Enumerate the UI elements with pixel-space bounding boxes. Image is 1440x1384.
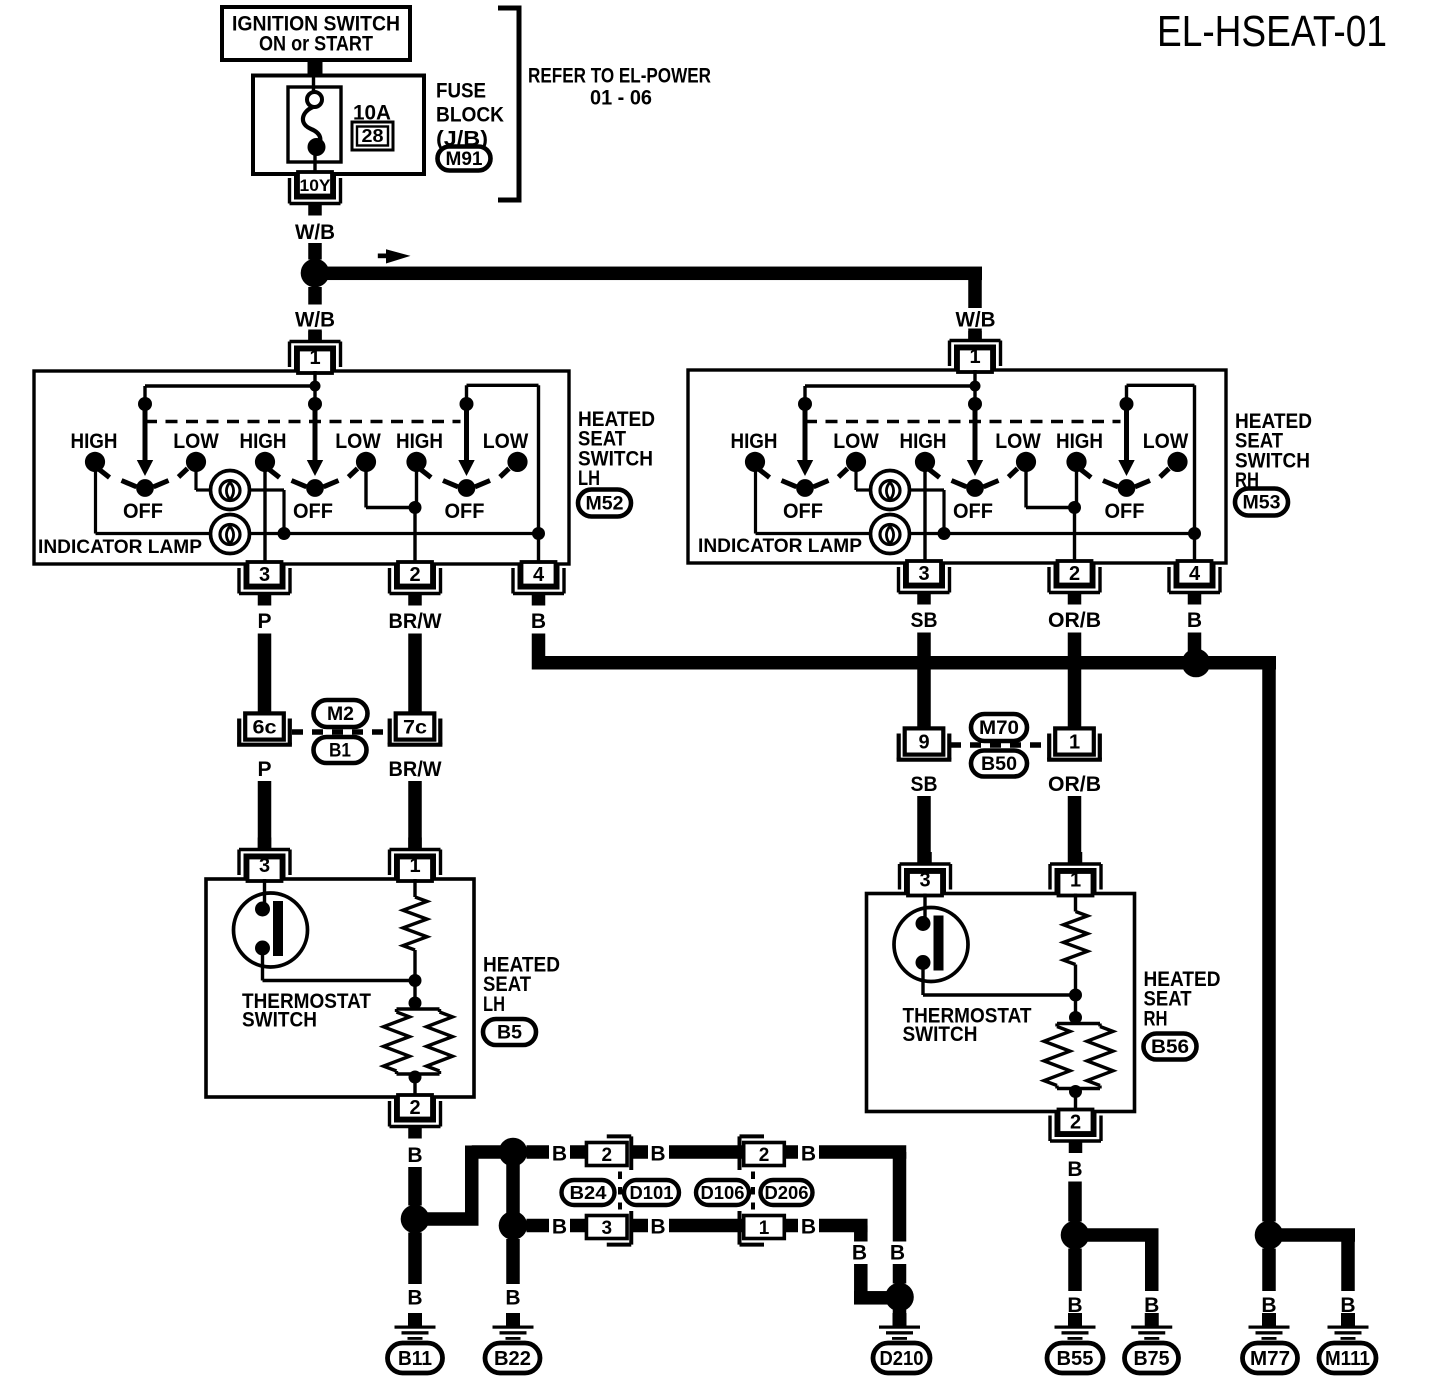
wire from pin 1 bbox=[313, 371, 316, 404]
svg-text:BLOCK: BLOCK bbox=[436, 103, 504, 127]
pin 2 connector bbox=[1059, 1110, 1093, 1134]
wire SB bbox=[917, 633, 931, 727]
node parallel heater top bbox=[1069, 1011, 1082, 1024]
svg-text:M52: M52 bbox=[586, 494, 624, 515]
svg-text:INDICATOR LAMP: INDICATOR LAMP bbox=[698, 535, 862, 557]
wire B row1 bbox=[669, 1145, 744, 1159]
connector ref B56 bbox=[1144, 1034, 1197, 1060]
connector D106/D206 pin 2 bbox=[740, 1134, 765, 1138]
svg-text:LH: LH bbox=[483, 992, 505, 1016]
svg-text:01 - 06: 01 - 06 bbox=[590, 87, 652, 110]
svg-text:LOW: LOW bbox=[173, 430, 219, 453]
wire B row1 to D210 bbox=[819, 1145, 906, 1159]
connector ref M91 bbox=[438, 147, 491, 171]
svg-text:D106: D106 bbox=[701, 1182, 745, 1203]
svg-text:2: 2 bbox=[409, 1097, 420, 1119]
svg-text:9: 9 bbox=[918, 732, 929, 754]
svg-text:P: P bbox=[257, 758, 271, 781]
svg-text:B: B bbox=[407, 1287, 422, 1310]
svg-text:10Y: 10Y bbox=[300, 176, 332, 195]
svg-text:4: 4 bbox=[1189, 563, 1201, 585]
switch arrow (pole) bbox=[143, 404, 148, 462]
LOW contact bbox=[1167, 452, 1187, 472]
svg-text:INDICATOR LAMP: INDICATOR LAMP bbox=[38, 536, 202, 558]
LOW contact bbox=[507, 452, 527, 472]
svg-text:2: 2 bbox=[409, 564, 420, 586]
wire B to ground B22 bbox=[506, 1239, 520, 1284]
switch arrow (pole) bbox=[1124, 404, 1129, 462]
wire B to ground B11 bbox=[408, 1233, 422, 1285]
LOW contact bbox=[846, 452, 866, 472]
wire from pin 1 bbox=[973, 370, 976, 404]
svg-text:2: 2 bbox=[759, 1145, 770, 1166]
switch OFF contact bbox=[1118, 479, 1136, 497]
connector M70/B50 pin 9 bbox=[897, 734, 901, 760]
HIGH contact bbox=[85, 452, 105, 472]
thermostat switch box (heated seat LH) bbox=[206, 879, 474, 1097]
ground D210 bbox=[893, 1313, 907, 1327]
svg-text:LOW: LOW bbox=[483, 430, 529, 453]
svg-text:B: B bbox=[505, 1287, 520, 1310]
wire BR/W lower bbox=[408, 781, 422, 849]
pin 1 connector bbox=[958, 349, 992, 373]
svg-text:OFF: OFF bbox=[1105, 499, 1145, 523]
fuse block J/B box bbox=[253, 76, 424, 175]
svg-text:HIGH: HIGH bbox=[900, 430, 947, 453]
node bbox=[409, 974, 422, 987]
wire ignition to fuse block bbox=[308, 60, 323, 76]
svg-text:3: 3 bbox=[601, 1218, 612, 1239]
svg-text:B: B bbox=[852, 1242, 867, 1265]
wire LOW1 to indicator lamp 1 bbox=[194, 468, 197, 490]
pin 3 connector bbox=[907, 561, 941, 585]
wire W/B bbox=[308, 243, 322, 260]
node B splice RH bbox=[1061, 1221, 1090, 1250]
ground B11 bbox=[408, 1313, 422, 1327]
node parallel heater bottom bbox=[409, 1071, 422, 1084]
wire B row1 stub to splice bbox=[893, 1264, 907, 1284]
node parallel heater top bbox=[409, 997, 422, 1010]
connector refs M70 B50 bbox=[950, 742, 1048, 748]
svg-text:B: B bbox=[1187, 609, 1202, 632]
svg-text:BR/W: BR/W bbox=[389, 758, 442, 781]
svg-text:D206: D206 bbox=[765, 1182, 809, 1203]
switch OFF contact bbox=[306, 479, 324, 497]
parallel heater elements bbox=[397, 1007, 440, 1010]
node B splice 2 bbox=[499, 1138, 528, 1167]
svg-text:BR/W: BR/W bbox=[389, 610, 442, 633]
svg-text:B: B bbox=[890, 1242, 905, 1265]
wire B row2 to D210 bbox=[819, 1219, 868, 1233]
wire B to ground bus bbox=[532, 634, 546, 670]
indicator lamp 1 bbox=[871, 471, 910, 510]
connector ref M52 bbox=[578, 490, 631, 517]
node lamp return bbox=[938, 527, 951, 540]
node LOW2/HIGH3 bbox=[409, 501, 422, 514]
pin 1 connector bbox=[298, 350, 332, 374]
heater element resistor (main) bbox=[413, 879, 416, 897]
LOW contact bbox=[1016, 452, 1036, 472]
pin 3 connector bbox=[248, 562, 282, 586]
svg-text:B: B bbox=[801, 1143, 816, 1166]
svg-text:1: 1 bbox=[409, 855, 420, 877]
wire B row1 to connector bbox=[527, 1145, 550, 1159]
node W/B splice bbox=[301, 259, 330, 288]
thermostat switch symbol bbox=[894, 908, 968, 982]
svg-text:OFF: OFF bbox=[293, 499, 333, 523]
wire P bbox=[258, 634, 272, 712]
switch OFF contact bbox=[136, 479, 154, 497]
wire switch 3 common to pin 4 (ground side) bbox=[465, 385, 468, 404]
svg-text:1: 1 bbox=[1069, 732, 1080, 754]
svg-text:OFF: OFF bbox=[445, 499, 485, 523]
switch arrow (pole) bbox=[803, 404, 808, 462]
svg-text:FUSE: FUSE bbox=[436, 79, 486, 103]
wire B branch to M111 bbox=[1269, 1228, 1355, 1242]
svg-text:M91: M91 bbox=[446, 149, 483, 170]
wire OR/B bbox=[1068, 633, 1082, 727]
svg-text:D210: D210 bbox=[880, 1348, 924, 1370]
svg-text:3: 3 bbox=[918, 563, 929, 585]
pin 1 connector bbox=[398, 858, 432, 882]
svg-text:M2: M2 bbox=[327, 704, 354, 725]
svg-text:B: B bbox=[801, 1216, 816, 1239]
svg-text:OFF: OFF bbox=[123, 499, 163, 523]
svg-text:SWITCH: SWITCH bbox=[903, 1023, 978, 1046]
pin 2 connector bbox=[1058, 561, 1092, 585]
HIGH contact bbox=[1066, 452, 1086, 472]
svg-text:B: B bbox=[531, 610, 546, 633]
wire lamp1 to lamp return bbox=[250, 488, 284, 491]
wire HIGH2 to pin 3 bbox=[923, 468, 926, 563]
connector M2/B1 pin 7c bbox=[388, 719, 392, 745]
wire W/B below splice bbox=[308, 287, 322, 305]
ground B75 bbox=[1145, 1313, 1159, 1327]
wire LOW2 to pin 2 node bbox=[1024, 468, 1027, 508]
wire B to ground M77 bbox=[1262, 1249, 1276, 1292]
wire B RH pin4 to bus bbox=[1188, 633, 1202, 653]
switch OFF contact bbox=[458, 479, 476, 497]
svg-text:D101: D101 bbox=[630, 1182, 674, 1203]
node B splice D210 bbox=[885, 1283, 914, 1312]
switch arrow (pole) bbox=[464, 404, 469, 462]
svg-text:1: 1 bbox=[309, 347, 320, 369]
HIGH contact bbox=[406, 452, 426, 472]
wire W/B bus to RH switch bbox=[315, 267, 982, 281]
heated seat switch box M52 bbox=[34, 371, 569, 564]
node bbox=[1069, 989, 1082, 1002]
node B splice LH bbox=[401, 1205, 430, 1234]
LOW contact bbox=[356, 452, 376, 472]
wire switch 3 common to pin 4 (ground side) bbox=[1125, 385, 1128, 404]
svg-text:1: 1 bbox=[759, 1218, 770, 1239]
svg-text:LOW: LOW bbox=[995, 430, 1041, 453]
wire B splice to door harness bbox=[415, 1212, 479, 1226]
ground B55 bbox=[1068, 1313, 1082, 1327]
thermostat switch symbol bbox=[234, 893, 308, 967]
svg-text:RH: RH bbox=[1144, 1006, 1168, 1030]
connector refs B24 D101 D106 D206 bbox=[618, 1172, 622, 1210]
svg-text:B11: B11 bbox=[398, 1348, 432, 1370]
svg-text:B24: B24 bbox=[570, 1182, 608, 1203]
wire lamp1 to lamp return bbox=[910, 488, 944, 491]
svg-text:4: 4 bbox=[533, 564, 545, 586]
svg-text:OR/B: OR/B bbox=[1048, 773, 1101, 796]
node on indicator lamp return bbox=[532, 527, 545, 540]
REFER TO EL-POWER bracket bbox=[517, 8, 522, 200]
ground B22 bbox=[506, 1313, 520, 1327]
pin 3 connector bbox=[248, 858, 282, 882]
wire LOW2 to pin 2 node bbox=[364, 468, 367, 508]
svg-text:3: 3 bbox=[919, 870, 930, 892]
indicator lamp 2 bbox=[211, 515, 250, 554]
connector M70/B50 pin 1 bbox=[1047, 734, 1051, 760]
wire BR/W bbox=[408, 634, 422, 712]
svg-text:6c: 6c bbox=[253, 718, 277, 739]
svg-text:HIGH: HIGH bbox=[240, 430, 287, 453]
wire lamp2 return to pin 4 bbox=[910, 532, 1195, 535]
wire B bbox=[1068, 1182, 1082, 1222]
node: pin1 bus bbox=[310, 381, 321, 392]
svg-text:1: 1 bbox=[969, 346, 980, 368]
svg-text:OFF: OFF bbox=[953, 499, 993, 523]
svg-text:B22: B22 bbox=[494, 1348, 531, 1370]
switch arrow (pole) bbox=[313, 404, 318, 462]
wire B to ground B55 bbox=[1068, 1249, 1082, 1292]
svg-text:REFER TO EL-POWER: REFER TO EL-POWER bbox=[528, 65, 711, 88]
svg-text:7c: 7c bbox=[403, 718, 427, 739]
flow arrow bbox=[378, 254, 391, 259]
heated seat switch box M53 bbox=[688, 370, 1226, 563]
svg-text:LOW: LOW bbox=[1143, 430, 1189, 453]
svg-text:W/B: W/B bbox=[295, 221, 335, 244]
svg-text:OR/B: OR/B bbox=[1048, 609, 1101, 632]
pin 4 connector bbox=[522, 562, 556, 586]
node ground bus splice M77 bbox=[1255, 1221, 1284, 1250]
ground M77 bbox=[1262, 1313, 1276, 1327]
svg-text:HIGH: HIGH bbox=[1056, 430, 1103, 453]
svg-text:M70: M70 bbox=[979, 718, 1019, 739]
svg-text:2: 2 bbox=[1069, 563, 1080, 585]
wire B row2 elbow to splice bbox=[854, 1264, 868, 1305]
switch common nodes bbox=[798, 397, 812, 411]
svg-text:B: B bbox=[1067, 1158, 1082, 1181]
wire B row2 bbox=[669, 1219, 744, 1233]
fuse 28 10A bbox=[288, 87, 341, 162]
node ground bus / RH pin4 bbox=[1182, 649, 1211, 678]
ground M111 bbox=[1341, 1313, 1355, 1327]
wire thermostat to heater node bbox=[261, 954, 264, 981]
wire B branch to B75 bbox=[1075, 1228, 1159, 1242]
svg-text:3: 3 bbox=[259, 564, 270, 586]
mechanical link (dashed) bbox=[145, 420, 461, 423]
wire HIGH1 to indicator lamp 2 bbox=[94, 468, 97, 534]
HIGH contact bbox=[745, 452, 765, 472]
connector ref B5 bbox=[483, 1019, 536, 1045]
svg-text:LOW: LOW bbox=[833, 430, 879, 453]
ground bus B bbox=[532, 656, 1276, 670]
wire pin1 to switch 1 common bbox=[145, 384, 315, 387]
svg-text:SB: SB bbox=[911, 609, 938, 632]
svg-text:LOW: LOW bbox=[335, 430, 381, 453]
svg-text:1: 1 bbox=[1070, 870, 1081, 892]
svg-text:B: B bbox=[407, 1144, 422, 1167]
svg-text:HIGH: HIGH bbox=[731, 430, 778, 453]
node LOW2/HIGH3 bbox=[1068, 501, 1081, 514]
wire HIGH3 to pin 2 bbox=[1075, 468, 1078, 508]
svg-text:W/B: W/B bbox=[295, 309, 335, 332]
svg-text:28: 28 bbox=[362, 126, 384, 146]
pin 3 connector bbox=[908, 872, 942, 896]
connector D106/D206 pin 1 bbox=[740, 1243, 765, 1247]
svg-text:2: 2 bbox=[601, 1145, 612, 1166]
node: pin1 bus bbox=[970, 381, 981, 392]
svg-text:SWITCH: SWITCH bbox=[242, 1009, 317, 1032]
svg-text:P: P bbox=[257, 610, 271, 633]
mechanical link (dashed) bbox=[805, 420, 1121, 423]
LOW contact bbox=[186, 452, 206, 472]
wire B row2 from splice bbox=[506, 1152, 520, 1226]
svg-text:B1: B1 bbox=[329, 741, 351, 762]
svg-text:B: B bbox=[650, 1216, 665, 1239]
node parallel heater bottom bbox=[1069, 1085, 1082, 1098]
ground bus right leg down bbox=[1262, 663, 1276, 1222]
svg-text:B55: B55 bbox=[1057, 1348, 1094, 1370]
pin 2 connector bbox=[398, 1095, 432, 1119]
HIGH contact bbox=[255, 452, 275, 472]
wire HIGH1 to indicator lamp 2 bbox=[754, 468, 757, 534]
wire thermostat to heater node bbox=[921, 969, 924, 996]
connector M2/B1 pin 6c bbox=[237, 719, 241, 745]
connector ref M53 bbox=[1235, 489, 1288, 516]
wire LOW1 to indicator lamp 1 bbox=[854, 468, 857, 490]
svg-text:B56: B56 bbox=[1151, 1037, 1189, 1058]
svg-text:3: 3 bbox=[259, 855, 270, 877]
svg-text:B: B bbox=[552, 1216, 567, 1239]
svg-text:OFF: OFF bbox=[783, 499, 823, 523]
pin 1 connector bbox=[1059, 872, 1093, 896]
wire HIGH3 to pin 2 bbox=[415, 468, 418, 508]
parallel heater elements bbox=[1057, 1022, 1100, 1025]
switch common nodes bbox=[138, 397, 152, 411]
connector B24/D101 pin 3 bbox=[607, 1243, 632, 1247]
connector B24/D101 pin 2 bbox=[607, 1134, 632, 1138]
wire pin1 to switch 1 common bbox=[805, 384, 975, 387]
wire lamp2 return to pin 4 bbox=[250, 532, 539, 535]
svg-text:SB: SB bbox=[911, 773, 938, 796]
indicator lamp 1 bbox=[211, 471, 250, 510]
node on indicator lamp return bbox=[1188, 527, 1201, 540]
pin 2 connector bbox=[398, 562, 432, 586]
svg-text:B: B bbox=[552, 1143, 567, 1166]
ignition switch box bbox=[222, 7, 410, 60]
svg-text:2: 2 bbox=[1070, 1112, 1081, 1134]
svg-text:B75: B75 bbox=[1134, 1348, 1170, 1370]
switch arrow (pole) bbox=[973, 404, 978, 462]
svg-text:M77: M77 bbox=[1250, 1348, 1290, 1370]
svg-text:B50: B50 bbox=[981, 754, 1017, 775]
HIGH contact bbox=[915, 452, 935, 472]
switch OFF contact bbox=[796, 479, 814, 497]
svg-text:M53: M53 bbox=[1243, 493, 1281, 514]
pin 4 connector bbox=[1178, 561, 1212, 585]
indicator lamp 2 bbox=[871, 515, 910, 554]
svg-text:ON or START: ON or START bbox=[259, 32, 373, 56]
wire HIGH2 to pin 3 bbox=[263, 468, 266, 564]
svg-text:HIGH: HIGH bbox=[396, 430, 443, 453]
connector refs M2 B1 bbox=[292, 729, 388, 735]
svg-text:B5: B5 bbox=[497, 1023, 522, 1044]
fuse number 28 box bbox=[352, 122, 393, 150]
thermostat switch box (heated seat RH) bbox=[867, 894, 1135, 1112]
switch OFF contact bbox=[966, 479, 984, 497]
connector 10Y bbox=[298, 172, 332, 196]
svg-text:HIGH: HIGH bbox=[71, 430, 118, 453]
svg-text:LH: LH bbox=[578, 466, 600, 490]
wire P lower bbox=[258, 781, 272, 849]
node lamp return bbox=[278, 527, 291, 540]
heater element resistor (main) bbox=[1074, 894, 1077, 912]
svg-text:M111: M111 bbox=[1325, 1348, 1370, 1370]
wire to ground D210 bbox=[893, 1297, 907, 1313]
wire SB lower bbox=[917, 796, 931, 863]
svg-text:W/B: W/B bbox=[956, 309, 996, 332]
wire B bbox=[408, 1167, 422, 1206]
wire OR/B lower bbox=[1068, 796, 1082, 863]
svg-text:EL-HSEAT-01: EL-HSEAT-01 bbox=[1157, 7, 1387, 56]
svg-text:B: B bbox=[650, 1143, 665, 1166]
